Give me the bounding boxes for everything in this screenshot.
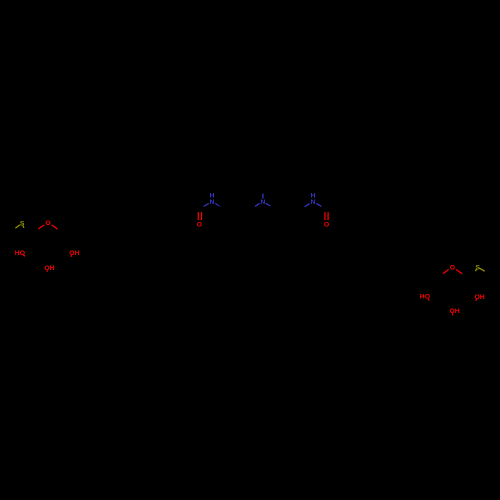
right sugar ring skeleton <box>431 267 473 321</box>
svg-text:OH: OH <box>44 265 54 272</box>
wire: skeleton N1 to carbonyl <box>200 207 204 209</box>
svg-text:OH: OH <box>449 308 459 315</box>
svg-text:N: N <box>311 199 316 206</box>
left sugar C3-OH skeleton <box>46 268 49 276</box>
left sugar C4-OH skeleton <box>70 253 72 261</box>
right sugar C3-OH skeleton <box>452 311 453 321</box>
bond O-C1 half (red, right sugar) <box>456 270 462 274</box>
wire: propyl chain central N to N2 <box>263 202 313 209</box>
bond O-C5 half (red, right sugar) <box>443 270 449 274</box>
bond OH-C3 half (red) <box>451 313 453 315</box>
left sugar ring skeleton <box>28 222 70 276</box>
bond N1-CH2 half (blue) <box>215 204 220 207</box>
bond N-CH2 right half (blue) <box>266 203 271 206</box>
bond S-C1 half (olive) <box>23 226 24 228</box>
right sugar S-methyl skeleton <box>478 267 490 275</box>
bond S-CH3 half (olive, right) <box>480 268 485 271</box>
svg-text:O: O <box>324 222 329 229</box>
left sugar S-C1 skeleton <box>23 226 28 236</box>
svg-text:S: S <box>20 221 25 228</box>
bond N2-C(=O) half (blue) <box>316 203 321 206</box>
bond N-CH2 left half (blue) <box>255 203 260 206</box>
bond S-CH3 half (olive) <box>15 225 20 228</box>
carbonyl C=O double bond (left, red) <box>197 212 199 220</box>
left sugar S-methyl skeleton <box>11 223 23 231</box>
left sugar C2-OH skeleton <box>22 253 27 260</box>
svg-text:HO: HO <box>15 250 25 257</box>
bond N1-C(=O) half (blue) <box>204 203 209 206</box>
bond HO-C2 half (red) <box>23 255 25 256</box>
bond OH-C2 half (red) <box>476 299 477 301</box>
svg-text:O: O <box>45 220 50 227</box>
bond OH-C3 half (red) <box>46 270 48 272</box>
wire: left alkyl chain skeleton (carbon bonds, near-invisible) <box>67 202 200 236</box>
carbonyl skeleton <box>322 207 327 212</box>
right sugar S-C1 skeleton <box>472 269 477 280</box>
bond O-C5 half (red) <box>52 225 58 229</box>
right sugar C4-OH skeleton <box>427 297 431 306</box>
wire: propyl chain N1 to central N <box>212 202 263 209</box>
bond OH-C4 half (red) <box>70 255 73 257</box>
carbonyl skeleton halves <box>199 209 201 212</box>
bond O-C1 half (red) <box>38 225 44 229</box>
bond N2-CH2 half (blue) <box>305 204 310 207</box>
N-methyl skeleton <box>262 188 264 193</box>
wire: right alkyl chain skeleton <box>327 203 436 281</box>
bond S-C1 half (olive, right) <box>476 269 477 271</box>
right sugar C2-OH skeleton <box>473 297 477 305</box>
bond N-CH3 half (blue) <box>262 193 264 198</box>
svg-text:O: O <box>450 264 455 271</box>
carbonyl C=O double bond (right, red) <box>324 212 326 220</box>
bond HO-C4 half (red) <box>428 299 429 301</box>
svg-text:O: O <box>197 222 202 229</box>
